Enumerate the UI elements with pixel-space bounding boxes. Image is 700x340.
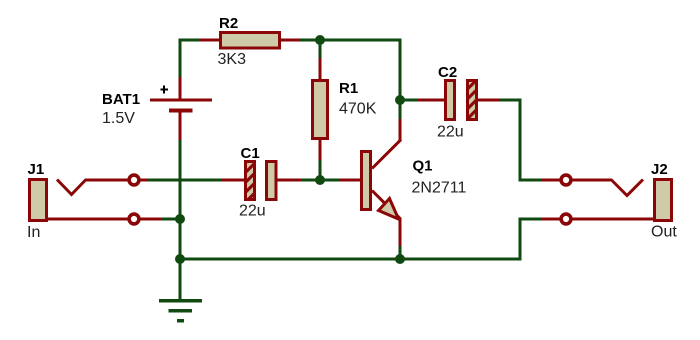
transistor Q1 base bar (362, 152, 371, 210)
svg-text:2N2711: 2N2711 (412, 180, 467, 197)
jack J2 tip contact (611, 180, 643, 196)
wire collector node to C2 left (400, 99, 418, 102)
capacitor C1 positive plate (267, 162, 277, 200)
battery BAT1 positive plate (150, 99, 212, 102)
svg-text:470K: 470K (339, 101, 377, 118)
svg-text:C2: C2 (438, 64, 457, 81)
jack J2 sleeve wire from terminal (572, 218, 653, 221)
wire C2 right to J2 tip (500, 100, 542, 180)
transistor Q1 emitter pin vertical (399, 218, 402, 246)
wire top rail from battery to R2 left (180, 40, 200, 77)
svg-text:BAT1: BAT1 (102, 91, 140, 108)
ground bar 1 (159, 299, 202, 303)
junction dot base node (315, 175, 325, 185)
wire battery negative to ground rail (179, 140, 182, 299)
svg-text:In: In (27, 224, 40, 241)
jack J2 body (655, 180, 672, 221)
svg-text:22u: 22u (437, 124, 464, 141)
wire J1 tip to C1 left (147, 179, 222, 182)
svg-text:1.5V: 1.5V (102, 110, 135, 127)
svg-text:22u: 22u (239, 203, 266, 220)
terminal circle J2 sleeve (561, 214, 571, 224)
jack J2 tip terminal stub (542, 179, 561, 182)
svg-text:J2: J2 (651, 161, 668, 178)
junction dot emitter node (395, 254, 405, 264)
junction dot node R2-R1 (315, 35, 325, 45)
resistor R2 pins (200, 39, 300, 42)
wire C1 right to base node (301, 179, 340, 182)
jack J1 sleeve wire to terminal (48, 218, 128, 221)
ground bar 3 (177, 319, 184, 323)
jack J2 tip wire from terminal (572, 179, 612, 182)
junction dot J1 sleeve node (175, 214, 185, 224)
battery BAT1 leads (179, 77, 182, 140)
wire top rail from R2 right to collector column (300, 40, 400, 119)
capacitor C2 negative hatched plate (468, 81, 477, 120)
svg-text:Q1: Q1 (413, 158, 433, 175)
terminal circle J1 sleeve (129, 214, 139, 224)
jack J1 tip terminal stub (140, 179, 147, 182)
transistor Q1 emitter arrow (379, 199, 399, 220)
wire ground stem (179, 259, 182, 300)
wire J1 sleeve to rail (161, 218, 181, 221)
svg-text:3K3: 3K3 (218, 51, 247, 68)
capacitor C1 negative hatched plate (246, 162, 255, 200)
battery BAT1 negative plate (169, 109, 193, 113)
junction dot ground node (175, 254, 185, 264)
wire emitter stub (399, 246, 402, 259)
svg-text:J1: J1 (28, 161, 45, 178)
resistor R1 body (313, 81, 328, 139)
capacitor C2 positive plate (446, 81, 455, 120)
jack J1 tip contact (57, 180, 86, 195)
svg-text:R2: R2 (219, 15, 238, 32)
transistor Q1 collector pin vertical (399, 119, 402, 141)
transistor Q1 base pin (340, 179, 360, 182)
jack J2 sleeve terminal stub (541, 218, 560, 221)
capacitor C2 pins (418, 99, 500, 102)
battery BAT1 plus sign (161, 86, 169, 94)
terminal circle J2 tip (561, 175, 571, 185)
jack J1 sleeve terminal stub (140, 218, 161, 221)
wire J2 sleeve to bottom rail (180, 219, 541, 259)
transistor Q1 emitter diagonal (372, 191, 401, 220)
svg-text:C1: C1 (241, 145, 260, 162)
resistor R1 pins (319, 58, 322, 160)
wire R1 bottom stub (319, 160, 322, 180)
svg-text:Out: Out (651, 224, 677, 241)
wire R1 top stub (319, 40, 322, 58)
jack J1 body (30, 180, 47, 221)
jack J1 tip wire to terminal (85, 179, 128, 182)
svg-text:R1: R1 (339, 80, 358, 97)
capacitor C1 pins (222, 179, 301, 182)
transistor Q1 collector diagonal (372, 140, 401, 169)
terminal circle J1 tip (129, 175, 139, 185)
junction dot collector node (395, 95, 405, 105)
ground bar 2 (169, 309, 193, 313)
resistor R2 body (221, 33, 280, 49)
